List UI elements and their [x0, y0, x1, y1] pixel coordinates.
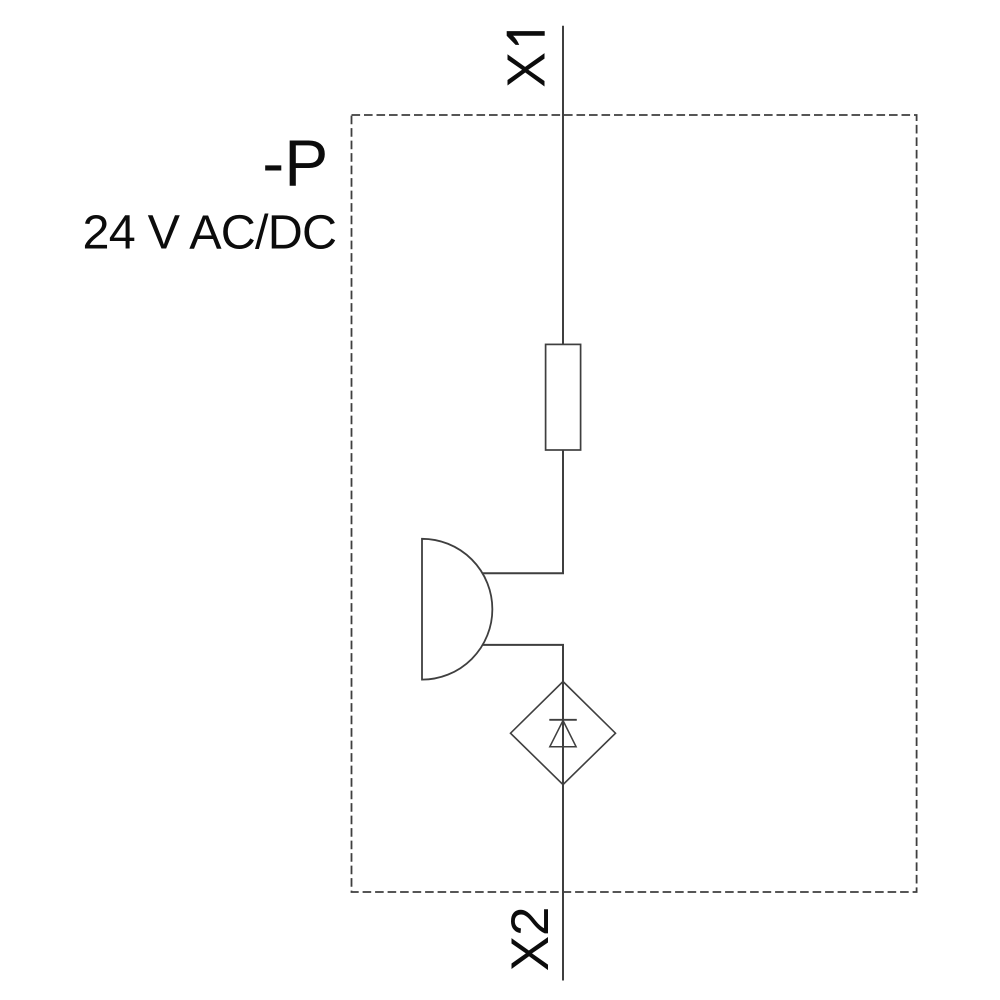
svg-text:-P: -P [262, 125, 328, 199]
diode D1: cathode bar [549, 719, 577, 721]
wire: resistor to buzzer upper terminal [482, 450, 563, 573]
enclosure dashed box [352, 115, 917, 892]
integrated rectifier diamond [511, 682, 616, 785]
terminal label X1 [497, 31, 557, 88]
diode D1: anode triangle [550, 721, 576, 747]
resistor R1 [546, 344, 581, 450]
svg-text:X: X [497, 52, 557, 88]
buzzer P (acoustic signalling device, semicircle) [422, 539, 492, 680]
wire: through rectifier to X2 lead [562, 682, 564, 981]
svg-text:24 V AC/DC: 24 V AC/DC [83, 206, 338, 260]
svg-text:X2: X2 [501, 906, 560, 971]
wire: buzzer lower terminal to rectifier diamond [482, 645, 563, 682]
wire: X1 lead to resistor [562, 26, 564, 345]
